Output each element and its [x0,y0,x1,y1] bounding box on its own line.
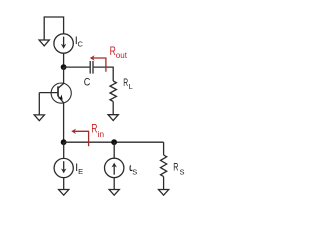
ground G4 (IE) [59,190,69,196]
wire IC to collector node [63,53,65,67]
ground G6 (RS) [159,190,169,196]
svg-text:R: R [123,77,128,89]
ground G2 (RL) [108,115,118,121]
label iS [130,166,132,171]
wire rail to RS [163,142,165,155]
current source iS [105,158,124,177]
svg-text:E: E [78,167,83,176]
capacitor C [89,61,91,74]
transistor Q1 [51,83,71,103]
ground G3 (base) [34,115,44,121]
wire rail to IE [63,142,65,158]
wire IE to ground [63,178,65,190]
current source IE [54,158,73,177]
svg-text:in: in [98,130,105,139]
wire G1 to IC top [44,17,63,40]
wire bottom rail [64,141,164,143]
wire node to Q1 collector [63,67,65,83]
svg-text:S: S [180,167,185,176]
svg-text:R: R [173,162,178,174]
svg-text:C: C [78,39,84,48]
node collector junction [61,64,67,70]
node emitter junction [61,139,67,145]
wire RL to ground [112,102,114,115]
wire capacitor to RL corner [94,67,114,81]
wire RS to ground [163,177,165,190]
ground G5 (iS) [109,190,119,196]
svg-text:S: S [132,167,137,176]
wire base to ground G3 [38,93,40,115]
current source IC [54,34,73,53]
ground G1 (top left) [39,40,49,46]
wire Q1 base [39,92,58,94]
svg-text:out: out [116,51,128,60]
resistor RL [110,81,116,102]
wire iS to ground [113,178,115,190]
node iS junction [111,139,117,145]
wire Q1 emitter to rail [63,103,65,142]
Rout probe arrow (red) [92,58,106,72]
resistor RS [161,155,167,177]
svg-text:L: L [129,82,133,91]
wire rail to iS [113,142,115,158]
Rin probe arrow (red) [73,131,89,146]
svg-text:C: C [84,77,91,89]
wire node to capacitor [64,66,90,68]
